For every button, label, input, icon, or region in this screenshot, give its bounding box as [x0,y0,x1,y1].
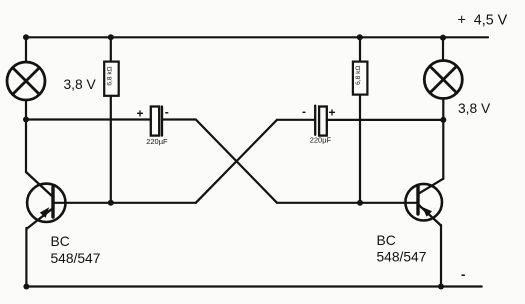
wire R1 bottom lead [110,96,112,203]
svg-text:-: - [461,267,465,282]
lamp LA2 [424,61,462,99]
wire R2 top lead [359,37,361,61]
wire C1 left segment [26,118,151,120]
node junction emitter2-ground [438,284,444,290]
transistor Q1 [26,172,66,229]
wire R2 bottom lead [359,95,361,203]
node junction rail-lamp2 [440,35,446,41]
svg-text:220µF: 220µF [310,135,332,144]
wire C1 right segment [162,118,196,120]
wire Q2 base wire [277,202,418,204]
svg-text:BC: BC [377,233,396,248]
svg-text:-: - [302,105,306,119]
svg-text:6,8 kΩ: 6,8 kΩ [106,66,113,85]
lamp LA1 [7,62,45,100]
capacitor C2 plates [315,106,327,136]
svg-text:BC: BC [51,234,70,249]
node junction lamp1-C1 wire [23,117,29,123]
svg-text:-: - [165,105,169,119]
wire lamp1 top lead [25,37,27,61]
svg-text:+: + [329,106,336,120]
svg-text:+: + [137,107,144,121]
wire C2 left segment [277,119,315,121]
svg-text:+ 4,5 V: + 4,5 V [458,12,508,28]
node junction top-left corner [23,34,29,40]
node junction rail-R1 [108,34,114,40]
wire Q1 emitter to ground [25,228,27,287]
svg-text:548/547: 548/547 [377,250,427,265]
svg-text:6,8 kΩ: 6,8 kΩ [355,66,362,85]
wire Q2 emitter to ground [440,225,442,287]
svg-text:548/547: 548/547 [51,251,101,266]
wire lamp2 top lead [442,37,444,60]
node junction lamp2-C2 wire [440,117,446,123]
wire C2 right segment [327,119,444,121]
node junction R1-base wire [108,200,114,206]
transistor Q2 [405,179,443,226]
resistor R1 body [104,62,119,96]
capacitor C1 plates [151,107,162,136]
svg-text:3,8 V: 3,8 V [458,101,491,116]
node junction emitter1-ground [23,284,29,290]
wire diagonal cross A (C1 to Q2 base) [196,120,277,203]
wire lamp1 bottom lead to collector node [25,101,27,173]
wire Q2 collector lead [442,120,444,179]
svg-text:3,8 V: 3,8 V [64,77,97,92]
svg-text:220µF: 220µF [146,137,168,146]
wire top supply rail [26,36,488,38]
wire diagonal cross B (C2 to Q1 base) [196,120,277,203]
node junction rail-R2 [357,34,363,40]
wire bottom ground rail [26,285,481,287]
resistor R2 body [353,62,368,95]
wire lamp2 bottom lead [442,99,444,120]
node junction R2-base wire [357,200,363,206]
wire Q1 base wire [53,202,196,204]
wire R1 top lead [110,37,112,61]
